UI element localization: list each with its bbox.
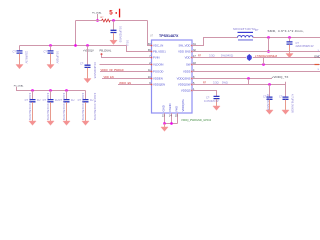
node junction (288, 36, 290, 38)
svg-text:VDDQ5: VDDQ5 (181, 89, 191, 93)
wire (165, 123, 178, 125)
svg-text:0.1UF/16V/X5: 0.1UF/16V/X5 (93, 62, 97, 79)
wire (102, 78, 152, 80)
svg-text:PB_VDD1: PB_VDD1 (153, 50, 166, 54)
svg-text:1U: 1U (37, 98, 40, 102)
svg-text:+VDDQV: +VDDQV (83, 49, 94, 53)
wire (76, 20, 148, 22)
wire (97, 14, 99, 21)
svg-text:22UF/6.3V/X5R: 22UF/6.3V/X5R (266, 94, 270, 112)
svg-text:C?: C? (78, 98, 82, 102)
ground (63, 121, 70, 125)
resistor R1 (P5_DUAL feed) (102, 19, 111, 22)
node junction (65, 89, 67, 91)
svg-text:PB_DUAL: PB_DUAL (100, 49, 112, 53)
svg-text:VDDQ_PWRGND_GPIO4: VDDQ_PWRGND_GPIO4 (181, 118, 212, 122)
node junction (49, 44, 51, 46)
wire (113, 33, 115, 40)
pin numbers right (193, 43, 196, 91)
node junction (86, 44, 88, 46)
svg-text:C?: C? (59, 98, 63, 102)
wire (85, 91, 87, 100)
svg-text:VDDQPG: VDDQPG (181, 99, 185, 111)
svg-text:C?: C? (263, 95, 267, 99)
svg-text:VDDQEN: VDDQEN (153, 83, 165, 87)
wire (148, 21, 152, 46)
svg-text:C?: C? (43, 98, 47, 102)
svg-text:3.3Ω: 3.3Ω (213, 81, 219, 85)
pin numbers left (148, 43, 151, 85)
wire (19, 53, 21, 64)
svg-text:SMD, 4.6*4.1*2.0mm,: SMD, 4.6*4.1*2.0mm, (268, 29, 305, 33)
wire (20, 45, 127, 47)
svg-text:0.1U: 0.1U (125, 40, 129, 46)
node junction (112, 19, 114, 21)
svg-text:22UF/X5R/6.3V: 22UF/X5R/6.3V (296, 44, 314, 48)
wire (285, 85, 287, 97)
svg-text:5%(0402): 5%(0402) (221, 54, 233, 58)
node junction (96, 19, 98, 21)
ferrite bead FB1 (247, 55, 252, 61)
svg-text:SW_VDD: SW_VDD (179, 44, 191, 48)
capacitor C7 (bank) (48, 100, 54, 102)
svg-text:L?/600Ω/100MHZ: L?/600Ω/100MHZ (255, 54, 278, 58)
wire (192, 57, 320, 59)
capacitor C8 (bank) (64, 100, 70, 102)
svg-text:PGOOD: PGOOD (153, 70, 163, 74)
wire (192, 71, 320, 73)
wire (269, 85, 271, 97)
wire (248, 79, 250, 85)
capacitor C9 (bank) (83, 100, 89, 102)
capacitor C13 (283, 97, 289, 99)
pin connection dots (151, 45, 193, 92)
wire (19, 46, 21, 51)
node ties right edge (318, 50, 320, 71)
wire (32, 91, 34, 100)
svg-text:VDDQSNS: VDDQSNS (177, 77, 191, 81)
wire (285, 100, 287, 110)
wire (192, 51, 320, 53)
wire (100, 64, 152, 66)
wire (66, 91, 68, 100)
svg-text:+VDDQ_TX: +VDDQ_TX (272, 75, 289, 79)
capacitor C10 (SW output) (287, 42, 293, 44)
wire (253, 37, 320, 39)
wire (192, 64, 320, 66)
ground (161, 127, 168, 131)
svg-text:VDD SNS: VDD SNS (178, 50, 191, 54)
node junction (31, 89, 33, 91)
wire (118, 84, 152, 86)
svg-text:VDD5: VDD5 (183, 70, 191, 74)
wire (192, 91, 217, 97)
ground (84, 79, 91, 83)
svg-text:VDC_IN: VDC_IN (153, 44, 163, 48)
svg-text:5: 5 (109, 9, 113, 16)
wire (50, 102, 52, 121)
node junction (247, 77, 249, 79)
svg-text:22UF/6.3V/X5R/20%: 22UF/6.3V/X5R/20% (81, 93, 85, 121)
capacitor C11 (0.47uF) (214, 96, 220, 98)
svg-text:0.47UF/6.3V: 0.47UF/6.3V (204, 99, 219, 103)
node junction (268, 83, 270, 85)
svg-text:C?: C? (44, 50, 48, 54)
node junction (262, 63, 264, 65)
wire (263, 58, 265, 65)
svg-text:C?: C? (279, 95, 283, 99)
svg-text:3.3Ω: 3.3Ω (209, 54, 215, 58)
svg-text:VDD: VDD (185, 56, 191, 60)
wire (85, 102, 87, 121)
wire (50, 53, 52, 64)
pin names right column (177, 44, 191, 93)
wire (192, 78, 272, 80)
wire (192, 38, 238, 46)
svg-text:C?: C? (13, 50, 17, 54)
wire (75, 21, 77, 46)
svg-text:22UF/6.3V/X5R/20%: 22UF/6.3V/X5R/20% (62, 93, 66, 121)
node junction (267, 50, 269, 52)
wire (216, 99, 218, 106)
svg-text:R?: R? (255, 28, 259, 32)
node junction (163, 122, 165, 124)
inductor L1 (238, 36, 254, 38)
svg-text:C?: C? (80, 62, 84, 66)
svg-text:PAD: PAD (175, 106, 179, 112)
svg-text:4.7UF/6.3V/X5R: 4.7UF/6.3V/X5R (291, 94, 295, 113)
ground (282, 110, 289, 114)
svg-text:P5_DUAL: P5_DUAL (92, 11, 103, 14)
capacitor C3 (rail) (17, 51, 23, 53)
svg-text:VLDOIN: VLDOIN (153, 63, 163, 67)
wire (50, 91, 52, 100)
wire (50, 46, 52, 51)
svg-text:VDDEN: VDDEN (153, 77, 163, 81)
svg-text:22UF/6.3V/X5R/20%: 22UF/6.3V/X5R/20% (93, 93, 97, 121)
svg-text:PGND: PGND (168, 103, 172, 111)
svg-text:P5_DUAL: P5_DUAL (14, 84, 25, 87)
wire (66, 102, 68, 121)
capacitor C12 (267, 97, 273, 99)
wire (165, 113, 178, 124)
svg-text:22UF/6.3V: 22UF/6.3V (25, 51, 29, 64)
node junction (74, 44, 76, 46)
wire (113, 21, 115, 31)
ground (29, 121, 36, 125)
node junction (267, 36, 269, 38)
pin names left column (153, 44, 166, 87)
wire (289, 38, 291, 42)
node stub dot (101, 53, 103, 55)
ground (110, 40, 117, 44)
wire (192, 84, 286, 86)
capacitor C4 (rail) (48, 51, 54, 53)
wire (32, 102, 34, 121)
capacitor C6 (bank) (30, 100, 36, 102)
svg-text:22UF/6.3V/X5R/20%: 22UF/6.3V/X5R/20% (28, 93, 32, 121)
svg-text:1U: 1U (71, 98, 74, 102)
node junction (170, 122, 172, 124)
svg-text:22UF/6.3V/X5R/20%: 22UF/6.3V/X5R/20% (46, 93, 50, 121)
wire (87, 46, 89, 66)
capacitor C2 (5V decoupling) (111, 30, 117, 32)
wire (269, 100, 271, 110)
power tick red (315, 64, 320, 65)
svg-text:NR6028T4R7N4: NR6028T4R7N4 (233, 27, 256, 31)
svg-text:SW: SW (186, 63, 191, 67)
ground (47, 65, 54, 69)
svg-text:C?: C? (25, 98, 29, 102)
wire (289, 44, 291, 53)
ground (16, 65, 23, 69)
svg-text:VDDQSW: VDDQSW (178, 83, 191, 87)
wire (100, 71, 152, 73)
ground (266, 110, 273, 114)
ground (47, 121, 54, 125)
wire (127, 46, 152, 52)
ground (213, 106, 220, 110)
svg-text:PVIN: PVIN (153, 56, 160, 60)
svg-text:0.1UF/25V/X5: 0.1UF/25V/X5 (119, 26, 123, 43)
svg-text:TPS51487X: TPS51487X (159, 34, 179, 38)
svg-text:0.1UF/16V: 0.1UF/16V (56, 51, 60, 64)
ground (286, 54, 293, 58)
wire (285, 82, 287, 85)
wire (17, 87, 86, 91)
svg-text:GND: GND (162, 105, 166, 111)
ground (82, 121, 89, 125)
wire (102, 55, 152, 58)
svg-text:5%Ω: 5%Ω (222, 81, 228, 85)
wire (87, 68, 89, 79)
node junction (49, 89, 51, 91)
wire (164, 124, 166, 128)
wire (268, 38, 270, 52)
capacitor C5 (85, 65, 91, 67)
